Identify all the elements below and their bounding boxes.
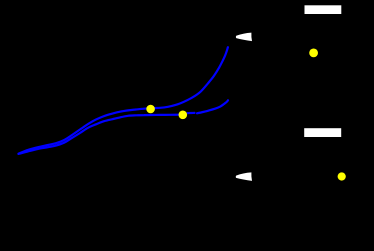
lower white bar — [304, 128, 341, 137]
lower arrowhead (white, pointing left) — [236, 172, 252, 181]
curve A (upper blue curve) — [19, 47, 228, 153]
upper white bar — [305, 5, 342, 14]
marker dot 3 (upper right) — [309, 49, 318, 58]
curve B dash segment after marker — [188, 112, 195, 114]
curve B right rising segment — [197, 100, 228, 113]
marker dot 2 on curve B — [179, 111, 188, 120]
marker dot 1 on curve A — [146, 105, 155, 114]
marker dot 4 (lower right) — [338, 172, 346, 180]
curve B (lower blue curve, left solid part) — [19, 115, 180, 154]
upper arrowhead (white, pointing left) — [236, 33, 252, 42]
